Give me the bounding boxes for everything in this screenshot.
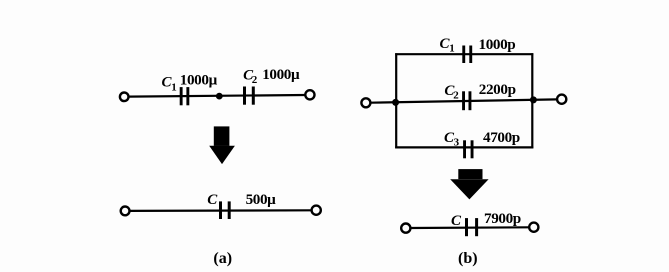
wire bottom branch	[395, 146, 533, 148]
svg-text:C: C	[207, 192, 218, 208]
svg-text:(b): (b)	[458, 250, 478, 267]
capacitor C3 plates (b)	[463, 140, 466, 158]
svg-text:C: C	[451, 213, 462, 229]
node junction dot (a)	[216, 93, 223, 100]
terminal left (a)	[120, 93, 129, 102]
svg-text:500μ: 500μ	[246, 191, 277, 208]
capacitor C2 plates	[243, 87, 246, 105]
capacitor C2 plates (b)	[462, 91, 465, 110]
svg-text:1: 1	[171, 82, 177, 94]
svg-text:2200p: 2200p	[479, 81, 516, 98]
arrow down (a)	[209, 126, 235, 164]
wire series circuit (a) main line	[129, 95, 306, 97]
svg-text:1000μ: 1000μ	[262, 66, 300, 83]
capacitor C1 plates	[180, 87, 183, 105]
svg-text:1: 1	[449, 43, 455, 55]
svg-text:4700p: 4700p	[483, 129, 520, 146]
terminal right (b)	[557, 95, 566, 104]
parallel block (b)	[361, 53, 566, 148]
svg-text:7900p: 7900p	[484, 210, 521, 227]
node junction dot left (b)	[392, 99, 399, 106]
wire equivalent circuit (a)	[130, 209, 312, 212]
capacitor C plates (b-equiv)	[465, 218, 478, 236]
node junction dot right (b)	[530, 96, 537, 103]
terminal left (a-equiv)	[121, 207, 130, 216]
svg-text:1000μ: 1000μ	[180, 72, 218, 89]
arrow down (b)	[450, 169, 488, 199]
terminal left (b-equiv)	[401, 224, 410, 233]
svg-text:3: 3	[454, 137, 460, 149]
terminal right (b-equiv)	[529, 223, 538, 232]
capacitor C1 plates (b)	[462, 46, 465, 64]
terminal right (a)	[305, 90, 314, 99]
wire middle branch	[370, 99, 557, 102]
wire left rail	[395, 53, 397, 148]
svg-text:1000p: 1000p	[479, 36, 516, 53]
wire right rail	[531, 53, 533, 148]
svg-text:(a): (a)	[213, 250, 232, 267]
wire equivalent circuit (b)	[410, 226, 529, 229]
svg-text:2: 2	[252, 74, 258, 86]
terminal right (a-equiv)	[312, 206, 321, 215]
wire top branch	[395, 53, 533, 55]
svg-text:2: 2	[453, 89, 459, 101]
terminal left (b)	[361, 98, 370, 107]
capacitor C plates (a-equiv)	[219, 201, 231, 219]
